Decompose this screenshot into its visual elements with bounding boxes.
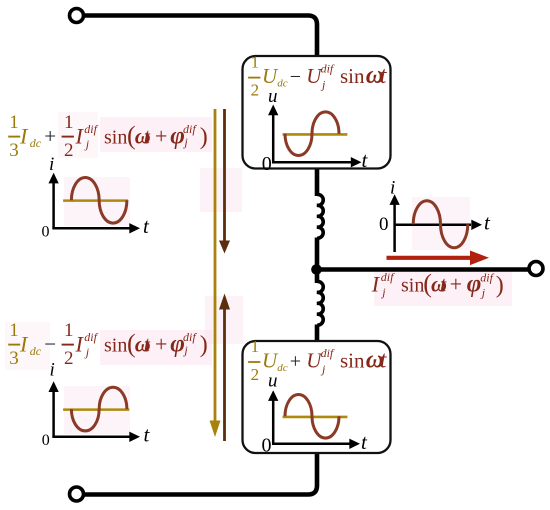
svg-text:+: + (290, 350, 301, 372)
svg-text:+: + (450, 272, 462, 297)
svg-text:1: 1 (9, 320, 18, 341)
inductor L2 (317, 281, 323, 325)
svg-text:2: 2 (64, 348, 74, 369)
svg-text:dif: dif (321, 346, 335, 360)
svg-text:3: 3 (9, 140, 18, 161)
wire: node to inductor L2 (315, 268, 320, 283)
svg-text:t: t (144, 124, 151, 149)
svg-text:dif: dif (480, 271, 494, 285)
svg-text:dif: dif (183, 330, 197, 344)
svg-text:dc: dc (30, 136, 42, 150)
svg-text:t: t (440, 272, 447, 297)
plot P1 top-left (42, 154, 151, 241)
svg-text:sin: sin (340, 64, 365, 88)
svg-text:1: 1 (64, 112, 74, 133)
svg-text:1: 1 (251, 53, 260, 72)
svg-text:t: t (144, 332, 151, 357)
terminal T1 top-left (70, 9, 84, 23)
svg-text:): ) (200, 124, 208, 150)
inductor L1 (317, 194, 323, 238)
svg-text:−: − (290, 66, 301, 88)
wire: L1 to node (315, 238, 320, 273)
svg-text:0: 0 (379, 214, 389, 235)
svg-text:+: + (155, 124, 167, 149)
svg-text:+: + (44, 124, 56, 148)
svg-text:dif: dif (183, 122, 197, 136)
wire: node to right terminal (317, 267, 528, 272)
node junction dot (311, 264, 322, 275)
svg-text:2: 2 (251, 81, 260, 100)
svg-text:): ) (200, 332, 208, 358)
svg-text:u: u (268, 86, 278, 107)
svg-text:u: u (268, 371, 278, 392)
svg-text:dc: dc (30, 344, 42, 358)
svg-text:dif: dif (84, 330, 98, 344)
svg-text:sin: sin (340, 348, 365, 372)
svg-text:0: 0 (42, 432, 50, 449)
svg-text:+: + (155, 332, 167, 357)
svg-text:dc: dc (277, 362, 288, 374)
wire: T1 to corner, down into top box (84, 16, 317, 59)
box U_bottom (243, 341, 391, 453)
svg-text:i: i (49, 154, 54, 175)
terminal T2 bottom-left (70, 487, 84, 501)
plot P2 bottom-left (42, 360, 151, 449)
svg-text:): ) (496, 273, 504, 299)
svg-text:dif: dif (84, 122, 98, 136)
svg-text:1: 1 (64, 320, 74, 341)
wire: top box to inductor L1 (315, 167, 320, 196)
brown arrow lower (up) (219, 294, 230, 442)
svg-text:dif: dif (381, 270, 395, 284)
brown arrow upper (down) (219, 109, 230, 254)
pink jpeg-halo patches (5, 59, 512, 442)
svg-text:0: 0 (262, 435, 272, 457)
svg-text:φ: φ (467, 271, 482, 298)
svg-text:sin: sin (401, 275, 424, 297)
dc level line (283, 416, 348, 419)
dc level line (283, 133, 348, 136)
svg-text:dif: dif (321, 62, 335, 76)
t axis (272, 443, 350, 446)
svg-text:i: i (50, 360, 55, 381)
u axis (272, 114, 275, 163)
svg-text:0: 0 (262, 153, 272, 175)
right formula: I_j^dif sin(wt+phi_j^dif) (371, 269, 504, 300)
svg-text:2: 2 (251, 365, 260, 384)
t axis (272, 161, 351, 164)
svg-text:1: 1 (251, 337, 260, 356)
wire: L2 into bottom box (315, 325, 320, 344)
wave crest-trough (285, 394, 339, 438)
u axis (272, 400, 275, 445)
red current arrow (387, 251, 490, 266)
terminal T3 right (529, 262, 543, 276)
svg-text:sin: sin (104, 335, 127, 357)
box U_top (243, 56, 391, 169)
svg-text:1: 1 (9, 112, 18, 133)
olive circulation arrow (down) (210, 109, 221, 437)
svg-text:−: − (44, 332, 56, 356)
svg-text:3: 3 (9, 348, 18, 369)
svg-text:dc: dc (277, 78, 288, 90)
svg-text:0: 0 (42, 224, 50, 241)
svg-text:2: 2 (64, 140, 74, 161)
svg-text:sin: sin (104, 127, 127, 149)
wire: bottom box down, corner, to T2 (84, 451, 317, 495)
wave trough-crest (285, 112, 339, 156)
